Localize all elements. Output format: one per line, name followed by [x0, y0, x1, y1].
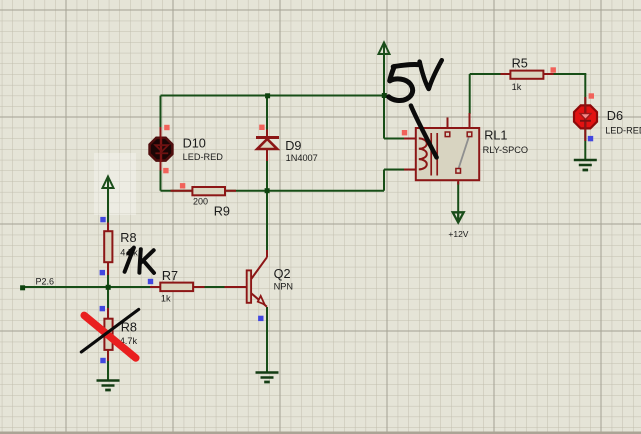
svg-text:P2.6: P2.6 — [36, 277, 55, 287]
svg-text:R7: R7 — [162, 269, 178, 283]
svg-text:1k: 1k — [512, 82, 522, 92]
svg-text:D6: D6 — [607, 109, 623, 123]
svg-text:D10: D10 — [183, 137, 206, 151]
svg-text:NPN: NPN — [274, 282, 293, 292]
svg-text:LED-RED: LED-RED — [183, 152, 224, 162]
svg-text:R8: R8 — [120, 231, 136, 245]
svg-text:Q2: Q2 — [274, 267, 291, 281]
svg-text:1N4007: 1N4007 — [286, 153, 318, 163]
svg-text:RL1: RL1 — [484, 129, 507, 143]
svg-text:D9: D9 — [285, 139, 301, 153]
svg-text:LED-RED: LED-RED — [605, 126, 641, 136]
svg-text:1k: 1k — [161, 293, 171, 303]
svg-text:200: 200 — [193, 197, 208, 207]
svg-text:R9: R9 — [214, 204, 230, 218]
svg-text:R5: R5 — [512, 57, 528, 71]
svg-text:RLY-SPCO: RLY-SPCO — [483, 145, 528, 155]
svg-text:+12V: +12V — [448, 229, 468, 239]
